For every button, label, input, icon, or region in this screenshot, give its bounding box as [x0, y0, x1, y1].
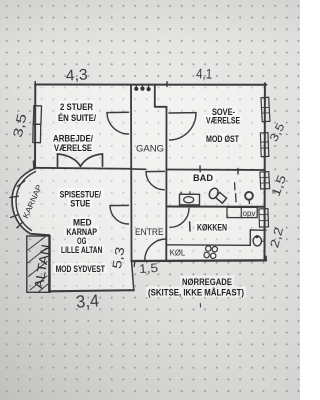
door gang-to-sove arc: [170, 113, 197, 140]
svg-text:STUE: STUE: [70, 199, 90, 209]
karnap outer arc: [12, 169, 35, 234]
label bg SKITSE: [146, 286, 246, 298]
svg-text:(SKITSE, IKKE MÅLFAST): (SKITSE, IKKE MÅLFAST): [148, 288, 244, 298]
kitchen counter boxes: [227, 207, 257, 217]
tick bad wall right: [237, 169, 239, 175]
altan hatch lines: [28, 237, 49, 292]
wire divider wall stub into gang: [131, 168, 146, 170]
window right bad: [260, 172, 270, 189]
kitchen counter divider: [240, 207, 242, 217]
wire gang jog wall: [155, 106, 167, 108]
door koekken arc: [170, 208, 189, 227]
door koekken leaf tick: [189, 222, 191, 231]
stove burner 2: [212, 247, 217, 252]
svg-text:VÆRELSE: VÆRELSE: [206, 116, 240, 126]
karnap tick 2: [10, 196, 19, 197]
wire gang right wall upper: [154, 85, 156, 107]
label bg MOD OST: [204, 134, 241, 144]
svg-text:BAD: BAD: [193, 173, 214, 183]
window right sove lower: [260, 133, 268, 157]
label bg KOKKEN: [195, 222, 229, 232]
window right sove upper: [261, 97, 270, 121]
door double right arc: [81, 154, 103, 166]
door entrance arc: [145, 239, 167, 261]
svg-text:MOD SYDVEST: MOD SYDVEST: [56, 264, 106, 274]
door gang-to-entre leaf: [146, 170, 164, 172]
svg-text:VÆRELSE: VÆRELSE: [54, 143, 92, 153]
karnap tick 4: [17, 222, 23, 228]
svg-text:ENTRE: ENTRE: [135, 227, 164, 237]
stove burner 4: [211, 253, 216, 258]
svg-text:ARBEJDE/: ARBEJDE/: [53, 134, 93, 144]
washbasin rect: [180, 194, 200, 205]
door gang-to-stuer leaf: [107, 111, 129, 113]
svg-text:KØL: KØL: [170, 248, 186, 258]
wire left outer wall: [34, 84, 36, 169]
karnap tick 1: [17, 181, 25, 187]
toilet bowl: [208, 187, 220, 200]
kitchen sink tap dot: [255, 235, 258, 238]
kitchen sink nook left edge: [249, 230, 251, 246]
label bg SOVE-: [210, 107, 237, 117]
svg-text:KØKKEN: KØKKEN: [197, 223, 227, 233]
karnap start tick above divider: [32, 161, 34, 169]
tick below skitse label: [199, 304, 201, 308]
label backgrounds: [51, 101, 246, 298]
wire gang left wall: [130, 85, 133, 262]
door double left arc: [58, 154, 81, 166]
label bg EN SUITE: [56, 111, 98, 122]
bad dashed divider: [235, 183, 236, 202]
hook stems gang top: [136, 85, 148, 88]
window right koekken: [259, 209, 269, 228]
pedestal fixture stem: [248, 200, 250, 204]
label bg NORREGADE: [180, 276, 234, 287]
label bg BAD: [191, 173, 215, 183]
wire spisestue left wall: [48, 235, 50, 291]
door gang-to-entre arc: [146, 172, 164, 190]
door double right leaf: [102, 154, 104, 166]
toilet tank: [215, 192, 226, 203]
door gang-to-stuer arc: [107, 113, 129, 134]
svg-text:4,1: 4,1: [196, 65, 213, 82]
svg-text:MOD ØST: MOD ØST: [206, 134, 239, 144]
typed room labels: [53, 102, 244, 298]
door spisestue leaf: [110, 204, 129, 206]
label bg SPISESTUE: [58, 188, 104, 199]
label bg 2 STUER: [58, 101, 95, 112]
wire spisestue bottom wall: [49, 290, 134, 291]
label bg KARNAP: [64, 226, 100, 236]
svg-text:NØRREGADE: NØRREGADE: [182, 277, 232, 287]
label bg VAERELSE-1: [52, 142, 94, 152]
door spisestue arc: [110, 206, 129, 224]
label bg MED: [71, 217, 94, 227]
wire karnap bottom jog wall: [31, 234, 49, 235]
door entrance leaf: [165, 239, 167, 261]
altan box: [27, 236, 50, 292]
stove burner 3: [204, 252, 209, 257]
label bg OG: [75, 236, 89, 246]
wire right outer wall: [264, 83, 266, 259]
wire bottom-right corner stub: [265, 257, 267, 261]
koel strip top line: [167, 244, 251, 247]
handwritten labels: [21, 144, 255, 291]
karnap tick 3: [11, 214, 19, 217]
door gang-to-sove leaf: [169, 112, 196, 114]
tick top wall dim divider: [166, 82, 168, 87]
wire top outer wall: [35, 84, 266, 86]
label bg STUE: [68, 198, 93, 208]
kitchen sink tick: [262, 240, 265, 242]
label bg MOD SYDVEST: [54, 263, 108, 273]
hook dots gang top: [134, 87, 151, 92]
corner overshoot top-left: [34, 82, 36, 85]
hook dot 3: [147, 87, 151, 91]
wire stuer/spisestue divider wall: [35, 168, 131, 169]
label bg LILLE ALTAN: [59, 245, 105, 255]
handwritten dimension labels: [10, 65, 289, 312]
svg-text:opv: opv: [243, 209, 256, 218]
washbasin bowl ellipse: [184, 197, 194, 203]
wire gang right wall lower: [165, 107, 167, 261]
wire spisestue right wall lower: [132, 261, 134, 291]
apartment interior light wash: [12, 84, 265, 291]
wire bottom wall kitchen+entre: [132, 259, 267, 262]
svg-text:LILLE ALTAN: LILLE ALTAN: [61, 245, 102, 255]
svg-text:ÉN SUITE/: ÉN SUITE/: [58, 113, 96, 123]
kitchen sink nook top edge: [250, 229, 266, 231]
wire sove/bad divider wall: [167, 169, 265, 172]
pedestal fixture circle: [245, 192, 253, 200]
svg-text:4,3: 4,3: [65, 66, 88, 84]
svg-text:3,4: 3,4: [75, 290, 100, 312]
svg-text:GANG: GANG: [136, 144, 164, 154]
hook dot 1: [134, 87, 138, 91]
wire bad/koekken divider wall: [167, 206, 265, 208]
stove burner 1: [206, 246, 211, 251]
label bg VAERELSE-2: [204, 115, 242, 125]
hook dot 2: [140, 87, 144, 91]
kitchen sink bowl: [253, 236, 261, 246]
window left wall lower: [33, 124, 41, 142]
svg-text:2 STUER: 2 STUER: [60, 102, 93, 112]
washbasin taps: [181, 192, 190, 195]
label bg ARBEJDE: [51, 131, 95, 142]
window left wall upper: [33, 106, 41, 125]
tick bad wall left: [199, 166, 201, 172]
karnap inner arc: [16, 172, 36, 231]
door double stuer/spisestue left leaf: [57, 154, 59, 167]
tick entre bottom left: [133, 262, 135, 267]
svg-text:1,5: 1,5: [139, 261, 159, 276]
